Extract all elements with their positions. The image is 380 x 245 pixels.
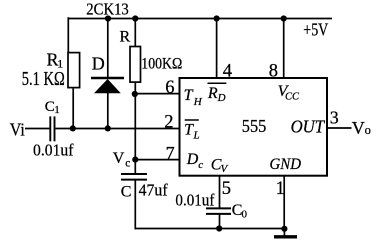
svg-text:8: 8 bbox=[269, 61, 278, 81]
svg-text:0.01uf: 0.01uf bbox=[175, 191, 214, 210]
svg-text:Vi: Vi bbox=[10, 119, 25, 139]
wire pin 8 bbox=[283, 17, 285, 78]
label R bbox=[120, 29, 131, 46]
svg-text:GND: GND bbox=[270, 156, 302, 173]
wire C0 bottom lead bbox=[219, 214, 221, 229]
wire diode bottom lead bbox=[107, 93, 109, 129]
pin number 2 bbox=[164, 113, 173, 133]
wire pin 5 lead bbox=[219, 176, 221, 209]
wire diode top lead bbox=[107, 17, 109, 78]
svg-text:+5V: +5V bbox=[303, 19, 328, 39]
svg-text:c: c bbox=[198, 159, 203, 171]
node junction top: diode top bbox=[105, 15, 111, 21]
wire Vi lead bbox=[25, 128, 50, 130]
wire ground stub bbox=[283, 229, 285, 237]
wire +5V top rail bbox=[68, 18, 332, 20]
svg-text:T: T bbox=[184, 87, 194, 104]
svg-text:D: D bbox=[217, 92, 226, 104]
pin label TL (active low) bbox=[184, 120, 200, 141]
svg-text:V: V bbox=[352, 118, 365, 138]
svg-text:1: 1 bbox=[276, 179, 285, 199]
ground symbol bbox=[274, 235, 297, 238]
wire pin 4 bbox=[216, 17, 218, 78]
svg-text:100KΩ: 100KΩ bbox=[141, 56, 182, 73]
label 100KOhm bbox=[141, 56, 182, 73]
label C bbox=[121, 184, 132, 201]
svg-text:o: o bbox=[365, 123, 371, 137]
pin number 4 bbox=[223, 61, 232, 81]
wire C bottom lead bbox=[134, 180, 136, 229]
label 5.1 KOhm bbox=[22, 69, 65, 90]
wire pin 6 bbox=[135, 93, 180, 95]
svg-text:V: V bbox=[113, 150, 125, 167]
label 0.01uf (input) bbox=[33, 141, 74, 160]
wire pin 3 output bbox=[327, 127, 352, 129]
node junction R bottom / pin6 wire bbox=[132, 91, 138, 97]
label C1 bbox=[45, 99, 60, 116]
wire pin 7 bbox=[135, 159, 179, 161]
capacitor C (bottom plate) bbox=[121, 179, 147, 181]
node junction diode / pin2 wire bbox=[105, 125, 111, 131]
svg-text:1: 1 bbox=[54, 104, 60, 116]
node junction C0 / ground rail bbox=[216, 225, 222, 231]
wire pin 2 bbox=[56, 128, 180, 130]
node junction top: R top bbox=[132, 15, 138, 21]
node junction R1 / pin2 wire bbox=[70, 125, 76, 131]
svg-text:R: R bbox=[207, 85, 218, 102]
label 555 bbox=[242, 116, 267, 136]
label Vc bbox=[113, 150, 131, 169]
node junction Vc / pin7 wire bbox=[132, 157, 138, 163]
svg-text:3: 3 bbox=[330, 107, 339, 127]
pin label DC bbox=[186, 151, 203, 171]
node junction top: pin8 bbox=[281, 15, 287, 21]
svg-text:4: 4 bbox=[223, 61, 232, 81]
pin label GND bbox=[270, 156, 302, 173]
diode D (cathode bar) bbox=[91, 77, 124, 79]
wire R1 bottom lead bbox=[72, 89, 74, 129]
wire pin 1 lead bbox=[283, 176, 285, 229]
node junction pin1 / ground rail bbox=[281, 226, 287, 232]
svg-text:R: R bbox=[120, 29, 131, 46]
wire bottom ground rail bbox=[135, 228, 285, 230]
svg-text:5: 5 bbox=[222, 179, 231, 199]
label +5V bbox=[303, 19, 328, 39]
capacitor C0 (top plate) bbox=[206, 207, 231, 209]
resistor R bbox=[130, 47, 141, 83]
label 47uf bbox=[139, 181, 168, 200]
label Vi bbox=[10, 119, 25, 139]
svg-text:H: H bbox=[193, 96, 203, 108]
capacitor C0 (bottom plate) bbox=[206, 213, 231, 215]
capacitor C (top plate) bbox=[121, 173, 147, 175]
label C0 bbox=[232, 202, 248, 221]
pin number 8 bbox=[269, 61, 278, 81]
svg-text:CC: CC bbox=[285, 92, 300, 103]
capacitor C1 (left plate) bbox=[49, 116, 51, 141]
svg-text:555: 555 bbox=[242, 116, 267, 136]
svg-text:7: 7 bbox=[166, 143, 175, 163]
svg-text:2: 2 bbox=[164, 113, 173, 133]
pin label RD (active low) bbox=[207, 83, 226, 104]
pin number 6 bbox=[165, 78, 174, 98]
pin number 3 bbox=[330, 107, 339, 127]
IC 555 box U1 bbox=[180, 78, 328, 176]
svg-text:D: D bbox=[186, 151, 199, 168]
svg-text:0.01uf: 0.01uf bbox=[33, 141, 74, 160]
pin label TH bbox=[184, 87, 203, 108]
pin number 1 bbox=[276, 179, 285, 199]
capacitor C1 (right plate) bbox=[54, 116, 56, 141]
pin label CV bbox=[211, 157, 229, 175]
pin label OUT bbox=[291, 117, 326, 137]
svg-text:D: D bbox=[92, 54, 105, 74]
wire R top lead bbox=[134, 17, 136, 46]
label D bbox=[92, 54, 105, 74]
pin label VCC bbox=[278, 83, 300, 103]
label 0.01uf (pin 5) bbox=[175, 191, 214, 210]
diode D (triangle, pointing up) bbox=[94, 79, 121, 93]
label R1 bbox=[47, 49, 64, 70]
svg-text:c: c bbox=[125, 157, 130, 169]
svg-text:C: C bbox=[121, 184, 132, 201]
svg-text:6: 6 bbox=[165, 78, 174, 98]
svg-text:L: L bbox=[193, 129, 200, 141]
svg-text:0: 0 bbox=[242, 209, 248, 221]
svg-text:5.1 KΩ: 5.1 KΩ bbox=[22, 69, 65, 90]
svg-text:OUT: OUT bbox=[291, 117, 326, 137]
node junction top: pin4 bbox=[214, 15, 220, 21]
label 2CK13 bbox=[86, 0, 129, 18]
wire R1 top lead bbox=[67, 17, 69, 52]
pin number 5 bbox=[222, 179, 231, 199]
wire R bottom lead down to capacitor C bbox=[134, 83, 136, 174]
resistor R1 bbox=[68, 53, 80, 88]
label Vo bbox=[352, 118, 371, 138]
pin number 7 bbox=[166, 143, 175, 163]
svg-text:47uf: 47uf bbox=[139, 181, 168, 200]
